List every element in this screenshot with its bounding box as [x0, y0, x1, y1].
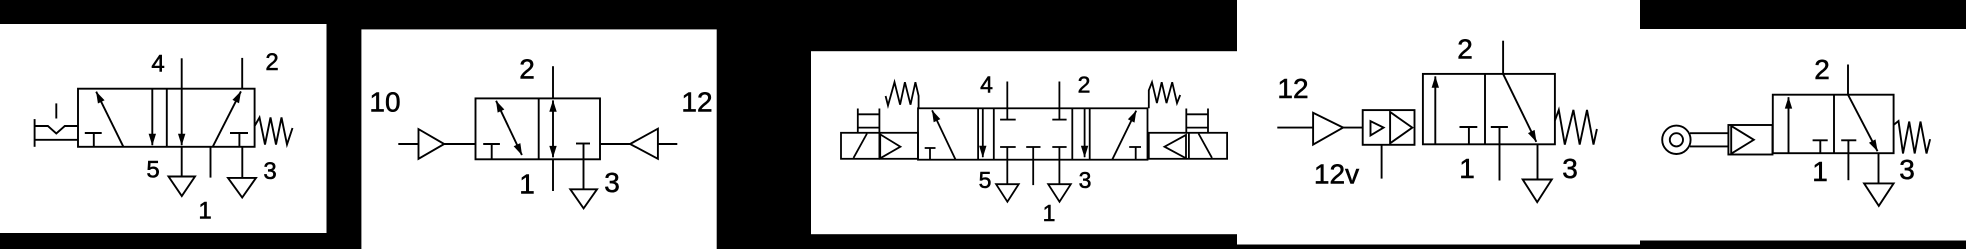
exhaust triangle port 3: [1048, 184, 1071, 202]
exhaust triangle port 5: [996, 184, 1019, 202]
valve V1 chamber divider: [166, 89, 168, 147]
port 5 line to exhaust: [1006, 160, 1008, 185]
amplifier small triangle: [1371, 121, 1384, 135]
V3 centre position: blocked port 1 (T): [1026, 146, 1040, 148]
left pilot triangle: [419, 129, 445, 159]
V3 right chamber left edge: [1089, 108, 1091, 159]
V3 centre position: blocked port 2 (T): [1058, 108, 1060, 119]
svg-text:3: 3: [263, 158, 276, 185]
return spring: [255, 118, 293, 145]
svg-text:1: 1: [198, 198, 211, 225]
valve V5 chamber divider: [1833, 95, 1835, 154]
left pilot triangle: [880, 134, 900, 158]
svg-text:2: 2: [265, 49, 278, 76]
V5 right position: blocked port 1 (T): [1841, 139, 1856, 141]
svg-text:12: 12: [681, 87, 712, 118]
svg-text:1: 1: [1812, 156, 1828, 187]
svg-text:4: 4: [151, 51, 164, 78]
V1 right position: passage 1->2 arrow: [213, 91, 241, 146]
svg-text:2: 2: [1457, 34, 1473, 65]
svg-text:5: 5: [146, 157, 159, 184]
port 2 line: [1847, 65, 1849, 95]
connection line: [1343, 127, 1363, 129]
pilot box triangle: [1731, 126, 1754, 154]
port 2 line: [241, 58, 243, 89]
V3 middle chamber right edge: [1071, 108, 1073, 159]
left pilot connection: [444, 143, 475, 145]
manual actuator: detent pin: [55, 103, 57, 118]
valve V2 body: [476, 98, 601, 159]
port 3 line to exhaust: [1058, 160, 1060, 185]
svg-text:2: 2: [519, 54, 535, 85]
V3 left gap passage arrow: [982, 108, 984, 157]
port 3 line to exhaust: [1537, 144, 1539, 179]
V2 left position: blocked port 1 (T): [483, 143, 500, 145]
port 2 line: [552, 66, 554, 98]
V3 right position: blocked port (T): [1129, 146, 1141, 148]
V2 left position: passage 2->3 double arrow: [496, 101, 509, 128]
right manual override ladder: [1185, 109, 1187, 133]
right solenoid diagonal: [1199, 134, 1213, 158]
amplifier large triangle: [1390, 112, 1412, 143]
V3 middle chamber left edge: [993, 108, 995, 159]
svg-text:3: 3: [1079, 167, 1092, 193]
valve V2 chamber divider: [538, 98, 540, 159]
amplifier vent stub: [1381, 145, 1383, 179]
svg-text:10: 10: [369, 87, 400, 118]
left solenoid diagonal: [854, 134, 868, 158]
svg-text:1: 1: [519, 169, 535, 200]
left centering spring: [886, 82, 919, 108]
port 4 line: [1006, 82, 1008, 109]
svg-text:1: 1: [1459, 153, 1475, 184]
right pilot triangle: [1165, 135, 1187, 158]
port 4 line: [181, 58, 183, 88]
right solenoid/pilot box: [1149, 133, 1227, 159]
V1 left position: blocked port 5 (T): [85, 132, 102, 134]
V4 left position: passage 1->2 arrow: [1434, 76, 1436, 144]
left solenoid/pilot box: [841, 133, 918, 159]
svg-text:2: 2: [1814, 54, 1830, 85]
V3 right position: diagonal arrow: [1112, 111, 1136, 160]
right centering spring: [1149, 82, 1180, 108]
left pilot line 10: [398, 143, 418, 145]
valve V1 body: [78, 89, 255, 147]
svg-text:3: 3: [1562, 153, 1578, 184]
exhaust triangle port 3: [1523, 180, 1552, 203]
svg-text:12v: 12v: [1314, 158, 1359, 189]
svg-text:12: 12: [1277, 73, 1308, 104]
V4 right position: passage 2->3 arrow: [1503, 74, 1536, 142]
port 2 line: [1058, 82, 1060, 109]
svg-text:3: 3: [604, 167, 620, 198]
V4 left position: blocked port (T): [1460, 126, 1478, 128]
port 5 line to exhaust: [181, 147, 183, 177]
roller outer circle: [1662, 126, 1690, 154]
panel 1 background: [0, 24, 327, 233]
V3 left position: blocked port (T): [925, 147, 936, 149]
left manual override ladder: [857, 109, 859, 133]
V3 centre position: blocked port 5 (T): [1000, 146, 1016, 148]
svg-text:3: 3: [1899, 154, 1915, 185]
panel 3 background: [811, 51, 1237, 234]
exhaust triangle port 3: [570, 189, 597, 208]
right pilot line 12: [658, 143, 677, 145]
port 1 line through body: [1499, 127, 1501, 181]
V3 centre position: blocked port 3 (T): [1052, 146, 1066, 148]
svg-text:4: 4: [980, 71, 993, 97]
exhaust triangle port 3: [228, 178, 256, 198]
svg-text:2: 2: [1078, 71, 1091, 97]
V3 centre position: blocked port 4 (T): [1006, 108, 1008, 119]
V1 left position: passage 1->4 arrow: [96, 92, 123, 147]
valve V3 body: [918, 108, 1148, 159]
exhaust triangle port 3: [1864, 183, 1894, 206]
port 3 line to exhaust: [1878, 153, 1880, 183]
port 3 line to exhaust: [583, 159, 585, 189]
V5 left position: blocked port (T): [1813, 139, 1828, 141]
svg-text:5: 5: [979, 167, 992, 193]
V4 right position: blocked port 1 (T): [1491, 126, 1508, 128]
plunger top line: [1690, 132, 1728, 134]
valve V4 chamber divider: [1484, 74, 1486, 144]
V3 left position: diagonal arrow: [932, 110, 956, 159]
svg-text:1: 1: [1043, 200, 1056, 226]
return spring: [1894, 121, 1930, 154]
right pilot connection: [600, 143, 630, 145]
port 2 line: [1502, 41, 1504, 74]
manual actuator: top rod with detent notch: [35, 126, 78, 134]
V3 right gap passage arrow: [1084, 108, 1086, 157]
signal line 12: [1277, 127, 1313, 129]
exhaust triangle port 5: [169, 177, 196, 197]
return spring: [1555, 110, 1597, 145]
valve V4 body: [1423, 74, 1555, 144]
panel 5 background: [1640, 29, 1966, 241]
manual actuator: bottom rod: [35, 139, 78, 141]
amplifier box: [1363, 110, 1415, 145]
port 1 line through body: [1847, 140, 1849, 180]
V1 left position: passage 2->3 arrow: [151, 89, 153, 146]
port 3 line to exhaust: [241, 147, 243, 178]
V1 right position: blocked port 3 (T): [230, 132, 248, 134]
pilot signal triangle: [1313, 113, 1343, 145]
port 1 line: [552, 159, 554, 191]
V1 right position: passage 4->5 arrow: [181, 89, 183, 146]
V3 left chamber right edge: [977, 108, 979, 159]
port 1 line: [210, 147, 212, 178]
V2 right position: blocked port 3 (T): [576, 143, 590, 145]
valve V5 body: [1773, 95, 1894, 154]
panel 2 background: [361, 29, 716, 249]
roller inner circle: [1670, 133, 1683, 146]
right pilot triangle: [630, 129, 658, 159]
V5 right position: passage 2->3 arrow: [1848, 95, 1878, 152]
pilot box: [1728, 125, 1772, 155]
port 1 line: [1032, 160, 1034, 185]
plunger bottom line: [1690, 145, 1728, 147]
manual actuator: mounting plate: [34, 119, 36, 147]
V2 right position: passage 1->2 double arrow: [552, 100, 554, 128]
V5 left position: passage 1->2 arrow: [1788, 97, 1790, 153]
panel 4 background: [1237, 0, 1640, 245]
